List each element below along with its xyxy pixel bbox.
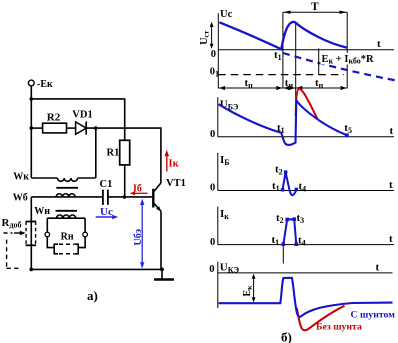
wire Rn right lead [79,237,86,248]
svg-text:t4: t4 [299,181,307,194]
svg-text:0: 0 [209,264,214,275]
svg-text:t2: t2 [275,164,283,177]
ground [154,269,174,279]
dimension Ust [199,22,214,49]
svg-text:Wн: Wн [34,206,50,217]
node t1 square plot3 [281,188,285,192]
node junction bottom left [29,268,33,272]
svg-text:t5: t5 [344,122,352,135]
svg-text:t3: t3 [297,212,305,225]
svg-text:t1: t1 [277,122,285,135]
resistor Rdob (dashed box on rail) [2,217,37,245]
wire left rail lower [30,197,32,270]
svg-text:UКЭ: UКЭ [220,261,240,274]
plot4 Ik: y axis [217,207,219,245]
node t3 square plot4 [292,217,296,221]
wire dashed bypass [7,240,20,269]
voltage label Uc (blue arrow) [96,206,119,219]
wire R2 to VD1 [67,127,76,129]
node pulse end marker line [295,23,297,99]
svg-text:tп: tп [315,77,324,90]
winding Wk [13,171,95,182]
svg-text:t: t [377,38,381,50]
arrow to Rdob [4,231,26,235]
svg-text:t: t [376,261,380,273]
svg-text:R2: R2 [47,112,61,124]
svg-text:а): а) [87,288,98,303]
voltage dimension Ube (blue) [133,199,144,269]
curve Ube red spike [296,89,318,120]
plot3 x axis [218,190,394,192]
node t1 marker line plot1 [282,12,284,88]
resistor R2 [43,123,67,133]
curve Ube blue [219,100,347,145]
svg-text:t: t [389,233,393,245]
svg-text:tи: tи [285,77,294,90]
svg-text:Ек: Ек [242,285,254,297]
svg-text:t: t [390,125,394,137]
plot5 x axis [218,272,393,274]
wire Rn left lead [47,237,54,248]
svg-text:Uст: Uст [199,30,211,45]
current arrow Ik (red) [165,150,180,172]
node junction R2 row [30,126,34,130]
svg-text:Ек + Iкбо*R: Ек + Iкбо*R [322,54,375,66]
svg-text:t1: t1 [274,49,282,62]
svg-text:t2: t2 [276,212,284,225]
core bar top [56,187,78,189]
dimension T [283,1,347,14]
node junction after VD1 [94,126,98,130]
svg-text:Rн: Rн [61,231,74,242]
diode VD1 [72,110,92,135]
svg-text:Wб: Wб [13,193,28,204]
plot3 Ib: y axis [217,153,219,191]
wire R1 to base node [124,165,126,197]
svg-text:R1: R1 [107,148,120,159]
node t4 square plot3 [295,188,299,192]
node junction top [30,97,34,101]
svg-text:-Ек: -Ек [37,79,53,90]
svg-text:VD1: VD1 [72,110,92,121]
svg-text:Uбэ: Uбэ [133,229,144,246]
svg-text:б): б) [281,330,292,343]
svg-text:01: 01 [210,66,219,78]
curve Uc extrapolated (blue dashed) [283,53,396,81]
plot5 Uke: y axis [217,262,219,308]
curve Ik trapezoid [283,219,296,244]
wire top horizontal [31,99,124,140]
node t5 square [345,133,349,137]
svg-text:tп: tп [245,77,254,90]
dimension tp/ti/tp line [218,86,347,90]
svg-text:Iк: Iк [220,208,229,221]
core bar bottom [56,210,78,212]
wire R2 row left [31,127,42,129]
current arrow Ib (red) [130,184,148,196]
wire bottom [31,268,162,270]
plot4 x axis [218,244,394,246]
svg-text:t1: t1 [272,180,280,193]
curve Uke red (bez shunta) [297,306,345,330]
svg-text:IБ: IБ [220,154,230,167]
svg-text:Wк: Wк [13,171,29,182]
curve Uke blue (s shuntom) [219,278,393,317]
node junction emitter bottom [160,268,164,272]
svg-text:VT1: VT1 [166,178,186,189]
node t2 square plot4 [285,218,289,222]
svg-text:0: 0 [211,49,216,60]
svg-text:T: T [311,1,319,13]
svg-text:Uс: Uс [220,9,233,20]
node period end marker line [346,12,348,88]
wire VD1 node down to Wk [95,128,97,178]
level 01 dashed [218,74,344,76]
plot2 Ube: y axis [217,97,219,137]
label Ek + Ikbo*R [319,48,376,74]
svg-text:0: 0 [210,183,215,194]
svg-text:0: 0 [210,129,215,140]
wire C1 to base [108,196,153,198]
svg-text:t: t [389,179,393,191]
terminal -Ek [28,80,34,86]
resistor R1 [120,140,130,165]
svg-text:0: 0 [210,237,215,248]
svg-text:Iк: Iк [169,159,180,170]
svg-text:С шунтом: С шунтом [351,309,396,320]
winding Wn [34,206,85,232]
curve Uc (blue solid) [219,22,347,49]
node junction base [123,195,127,199]
winding Wb / base wire [13,193,103,204]
terminal left of Rn [45,232,50,237]
plot1 x axis [218,49,394,51]
svg-text:Rдоб: Rдоб [2,217,22,230]
svg-text:t4: t4 [298,235,306,248]
terminal right of Rn [83,232,88,237]
wire VD1 to collector rail [86,128,161,183]
curve Ib spike [283,172,297,195]
svg-text:Без шунта: Без шунта [316,322,362,333]
node t1 square plot4 [282,242,286,246]
node t2 square plot3 [284,170,288,174]
wire left rail [30,86,32,178]
resistor Rn (dashed load box) [54,231,78,254]
capacitor C1 [100,179,113,205]
svg-text:C1: C1 [100,179,113,190]
dimension Ek [242,274,256,303]
plot1 Uc: y axis [217,13,219,88]
plot2 x axis [218,136,394,138]
transistor VT1 [153,178,186,269]
node t1 marker line plot4 [282,245,284,264]
svg-text:t1: t1 [272,234,280,247]
node t4 square plot4 [295,242,299,246]
